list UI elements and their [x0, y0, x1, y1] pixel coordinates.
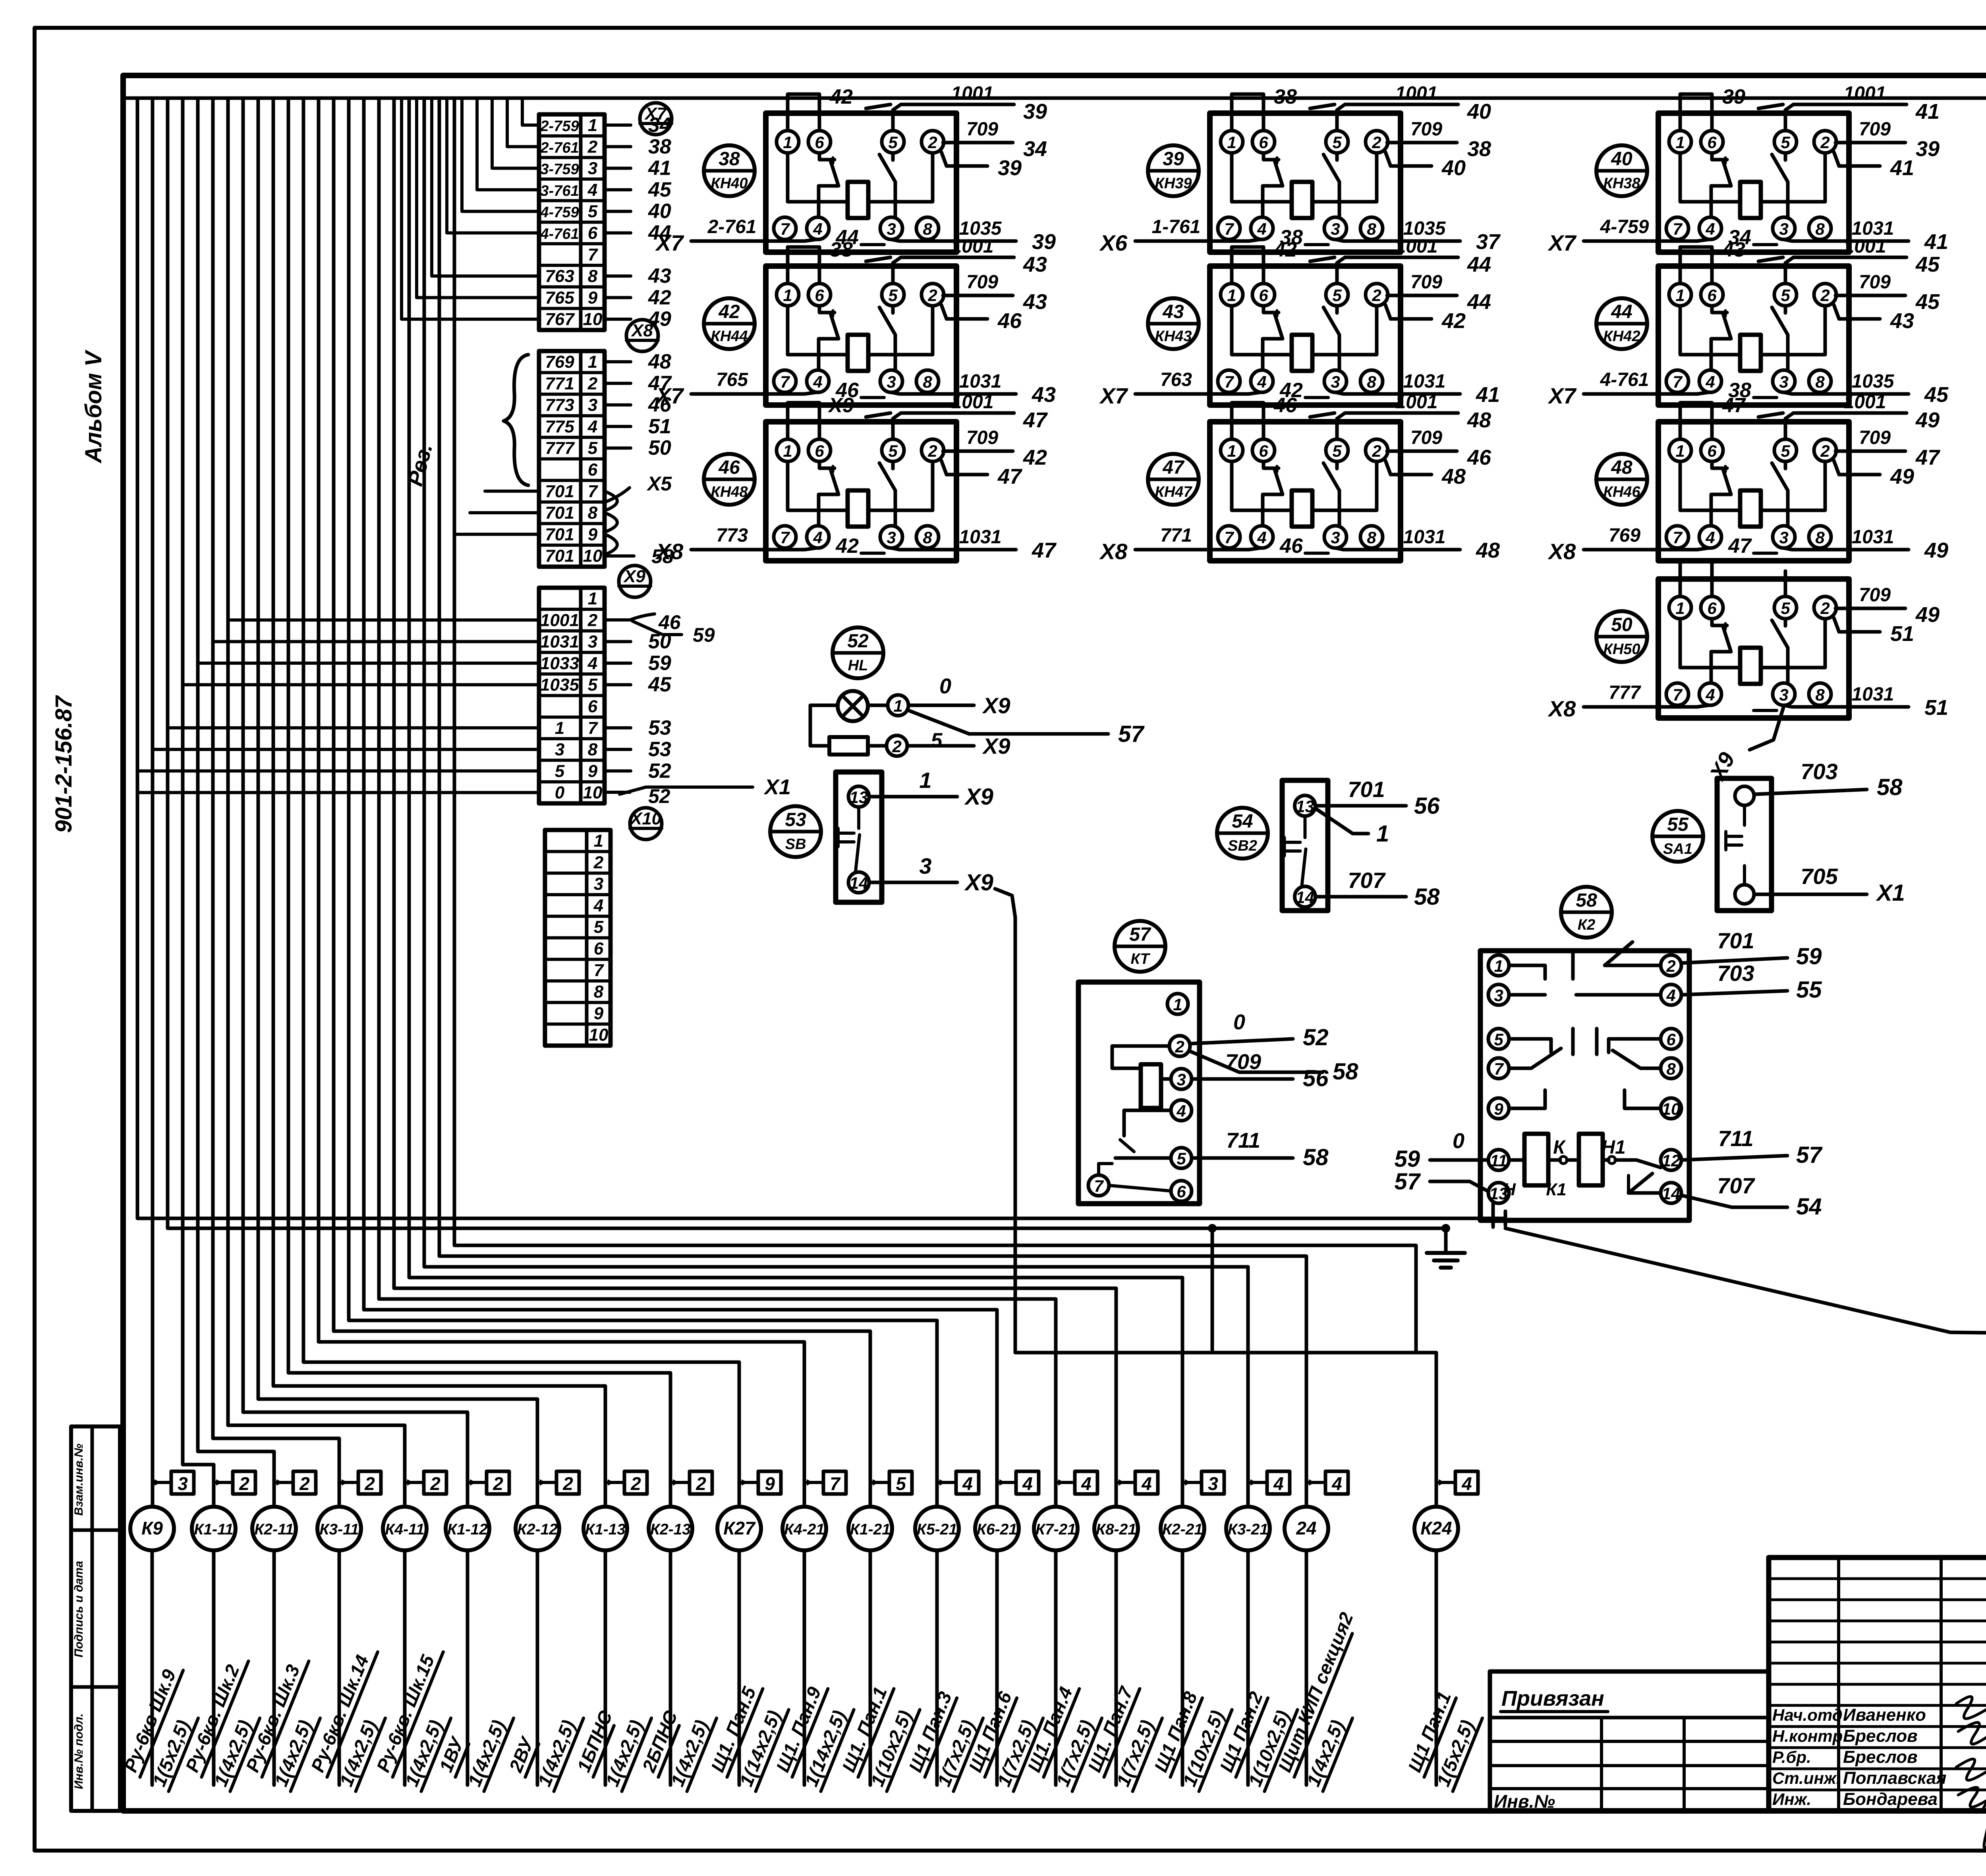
- svg-text:1031: 1031: [959, 527, 1002, 548]
- pin 1: [1221, 439, 1243, 461]
- svg-text:4: 4: [1257, 372, 1266, 391]
- svg-text:709: 709: [1410, 427, 1442, 448]
- svg-text:2-761: 2-761: [540, 139, 579, 156]
- svg-text:1: 1: [588, 589, 597, 608]
- cable down from К6-21: [995, 1550, 999, 1785]
- svg-text:38: 38: [1274, 85, 1297, 108]
- pin 3: [1773, 526, 1795, 548]
- svg-text:1: 1: [594, 831, 603, 851]
- cable count box 4: [1308, 1471, 1348, 1494]
- svg-text:37: 37: [1476, 230, 1501, 254]
- relay 38/КН40: [655, 83, 1056, 255]
- relay body КН38: [1658, 113, 1849, 252]
- wire 3: [869, 853, 993, 896]
- svg-text:47: 47: [1162, 457, 1185, 478]
- svg-text:8: 8: [923, 220, 932, 238]
- cabinet К1-12: [435, 1471, 514, 1791]
- svg-text:Взам.инв.№: Взам.инв.№: [72, 1444, 85, 1515]
- svg-text:52: 52: [847, 631, 869, 652]
- K2 coil K1: [1524, 1134, 1548, 1185]
- svg-text:58: 58: [1877, 774, 1903, 800]
- pin 4: [807, 526, 829, 548]
- svg-text:3: 3: [178, 1473, 188, 1494]
- wire 1001 from pin 5: [1785, 257, 1907, 283]
- svg-text:52: 52: [1303, 1025, 1329, 1050]
- svg-text:40: 40: [1467, 100, 1491, 124]
- svg-text:0: 0: [939, 674, 951, 698]
- svg-text:К1-21: К1-21: [850, 1521, 891, 1538]
- svg-text:707: 707: [1348, 868, 1386, 893]
- wire to cabinet К8-21: [394, 98, 1116, 1507]
- svg-text:КН43: КН43: [1155, 328, 1192, 345]
- jumper bracket pins 1-6: [1232, 94, 1263, 131]
- svg-text:7: 7: [1224, 528, 1234, 547]
- jumper bracket pins 1-6: [1680, 403, 1712, 439]
- cable name Щ1 Пан.3: [904, 1689, 957, 1777]
- second wire from pin 2: [1385, 152, 1432, 166]
- relay body КН39: [1210, 113, 1401, 252]
- cable down from К1-11: [212, 1550, 216, 1785]
- svg-text:43: 43: [1023, 253, 1047, 276]
- svg-text:769: 769: [545, 352, 574, 372]
- cable name Щ1 Пан.1: [1403, 1689, 1457, 1777]
- cable down from К1-13: [604, 1550, 607, 1785]
- svg-text:К8-21: К8-21: [1096, 1521, 1136, 1538]
- svg-text:46: 46: [1467, 446, 1491, 469]
- svg-text:46: 46: [718, 457, 740, 478]
- cable count box 2: [607, 1471, 647, 1494]
- left wire Х8 769: [1584, 548, 1708, 550]
- svg-text:8: 8: [1367, 372, 1376, 391]
- coil КН38: [1740, 182, 1761, 218]
- pin 8: [1809, 370, 1831, 392]
- cable count box 2: [672, 1471, 712, 1494]
- K2 pin 8: [1661, 1058, 1681, 1079]
- cabinet circle К24: [1414, 1507, 1458, 1550]
- wire 51 from Х8 pin 4: [605, 425, 631, 428]
- cabinet circle К2-13: [649, 1507, 692, 1550]
- svg-text:1001: 1001: [951, 392, 994, 413]
- contact 6-4: [819, 306, 835, 313]
- svg-text:46: 46: [1279, 535, 1303, 558]
- svg-text:10: 10: [1662, 1100, 1681, 1118]
- svg-text:Инв.№: Инв.№: [1494, 1791, 1555, 1812]
- KT pin 5: [1171, 1148, 1192, 1168]
- svg-text:773: 773: [716, 525, 748, 546]
- cable count box 5: [872, 1471, 912, 1494]
- cabinet circle К27: [717, 1507, 761, 1550]
- svg-text:2: 2: [630, 1473, 641, 1494]
- svg-text:1: 1: [1376, 821, 1389, 847]
- K2 body: [1480, 951, 1689, 1220]
- pin 6: [1701, 596, 1723, 619]
- switch body SA1: [1717, 778, 1772, 911]
- svg-text:Х1: Х1: [1876, 880, 1905, 906]
- KT pin 7: [1088, 1175, 1109, 1196]
- svg-text:8: 8: [1815, 220, 1825, 238]
- designator circle 43/КН43: [1148, 298, 1199, 349]
- svg-text:45: 45: [1915, 253, 1940, 276]
- svg-text:4: 4: [1331, 1473, 1342, 1494]
- wire to cabinet К1-11: [183, 98, 214, 1507]
- designator circle 39/КН39: [1148, 145, 1199, 196]
- svg-text:7: 7: [1673, 372, 1683, 391]
- jumper bracket pins 1-6: [788, 403, 819, 439]
- cabinet circle К8-21: [1094, 1507, 1138, 1550]
- connector symbol Х8: [626, 320, 658, 351]
- wire diagonal net 0 to frame right: [1505, 1228, 1986, 1339]
- svg-text:3: 3: [887, 528, 896, 547]
- svg-text:3: 3: [588, 396, 597, 415]
- wire 1001 from pin 5: [893, 413, 1014, 439]
- second wire from pin 2: [1385, 461, 1432, 475]
- relay body КН43: [1210, 266, 1401, 405]
- wire 0 to Х9 from lamp pin 1: [908, 674, 1010, 718]
- cable count box 2: [469, 1471, 509, 1494]
- pin 3: [1773, 683, 1795, 705]
- strip Х7 outline: [539, 114, 605, 330]
- KT pin 1: [1167, 994, 1188, 1014]
- terminal strip Х8: [539, 320, 672, 567]
- svg-text:709: 709: [966, 119, 998, 140]
- pin 6: [1701, 131, 1723, 153]
- contact 5-3: [1784, 461, 1787, 469]
- pin 4: [1699, 370, 1721, 392]
- svg-text:Х7: Х7: [644, 104, 667, 124]
- pin 3: [880, 526, 902, 548]
- wire 52 and X1 from Х9 pin 10: [605, 775, 791, 807]
- svg-text:2: 2: [1175, 1037, 1184, 1056]
- svg-text:709: 709: [1859, 585, 1891, 606]
- coil КН39: [1292, 182, 1312, 218]
- second wire from pin 2: [1834, 152, 1880, 166]
- jumper bracket pins 1-6: [1232, 247, 1263, 284]
- cable down from К8-21: [1115, 1550, 1118, 1785]
- svg-text:1: 1: [919, 768, 931, 793]
- svg-text:2: 2: [593, 853, 604, 872]
- relay 44/КН42: [1547, 236, 1949, 408]
- svg-text:50: 50: [648, 436, 671, 459]
- svg-text:1001: 1001: [1395, 236, 1438, 257]
- designator circle 42/КН44: [704, 298, 755, 349]
- junction at KT feeder and bus N: [1208, 1224, 1217, 1233]
- svg-text:7: 7: [1224, 372, 1234, 391]
- svg-text:1: 1: [1675, 133, 1685, 152]
- jumper loops Х8 pins 7-10: [605, 491, 617, 555]
- svg-text:10: 10: [583, 546, 603, 566]
- svg-text:1031: 1031: [1852, 527, 1894, 548]
- wire 41 from Х7 pin 3: [605, 167, 631, 170]
- cabinet circle К2-21: [1161, 1507, 1204, 1550]
- svg-text:58: 58: [1333, 1059, 1358, 1085]
- jumper bracket pins 1-6: [788, 247, 819, 284]
- wire to cabinet К7-21: [379, 98, 1056, 1507]
- relay body КН50: [1658, 579, 1849, 718]
- cabinet К5-21: [904, 1471, 983, 1791]
- KT pin 3: [1171, 1069, 1192, 1089]
- svg-text:7: 7: [588, 245, 599, 264]
- relay body КН48: [766, 422, 956, 561]
- wire 1001 from pin 5: [1785, 413, 1907, 439]
- actuator symbol: [1285, 816, 1306, 886]
- svg-text:39: 39: [1023, 100, 1047, 124]
- cable down from К3-11: [338, 1550, 341, 1785]
- svg-text:2: 2: [364, 1473, 375, 1494]
- wire 1001 from pin 5: [1785, 104, 1907, 130]
- svg-text:52: 52: [648, 759, 671, 782]
- jumper bracket pins 1-6: [788, 94, 819, 131]
- svg-text:Х9: Х9: [982, 693, 1010, 718]
- svg-text:1: 1: [1675, 286, 1685, 305]
- cable spec 1(10х2,5): [1244, 1701, 1298, 1791]
- svg-text:711: 711: [1226, 1129, 1260, 1152]
- cabinet circle К3-21: [1226, 1507, 1270, 1550]
- svg-text:47: 47: [1722, 394, 1746, 417]
- cabinet К1-13: [572, 1471, 651, 1791]
- relay 48/КН46: [1547, 392, 1948, 564]
- cabinet circle К1-21: [848, 1507, 892, 1550]
- relay body КН44: [766, 266, 956, 405]
- cabinet К6-21: [964, 1471, 1043, 1791]
- pin 5: [1774, 284, 1797, 306]
- svg-text:4-759: 4-759: [1600, 216, 1649, 237]
- actuator symbol: [838, 807, 860, 871]
- svg-text:4-761: 4-761: [1600, 369, 1649, 390]
- pin 1: [1669, 439, 1691, 461]
- K2 pin 2: [1661, 955, 1681, 976]
- wire to cabinet К3-21: [424, 98, 1248, 1507]
- pin 4: [807, 217, 829, 239]
- svg-text:Х7: Х7: [1547, 383, 1577, 408]
- svg-text:1: 1: [1675, 599, 1685, 618]
- svg-text:777: 777: [1609, 682, 1641, 703]
- svg-text:К1-11: К1-11: [194, 1521, 233, 1538]
- cable name Щ1. Пан.1: [837, 1680, 894, 1777]
- svg-text:3: 3: [1331, 528, 1340, 547]
- svg-text:59: 59: [1796, 944, 1822, 969]
- svg-text:Х9: Х9: [623, 567, 645, 586]
- svg-text:53: 53: [648, 716, 671, 739]
- wire pin2 to coil: [868, 153, 933, 202]
- pin 2: [1814, 131, 1836, 153]
- svg-text:38: 38: [648, 135, 671, 158]
- wire 1001 from pin 5: [1337, 413, 1458, 439]
- svg-text:49: 49: [1924, 538, 1948, 562]
- cable spec 1(4х2,5): [209, 1710, 260, 1791]
- svg-text:47: 47: [1023, 408, 1048, 432]
- svg-text:5: 5: [1494, 1030, 1503, 1049]
- svg-text:701: 701: [1717, 928, 1754, 953]
- cable name Ру-6кв Шк.9: [119, 1662, 183, 1777]
- svg-text:4: 4: [1141, 1473, 1152, 1494]
- svg-text:40: 40: [648, 200, 671, 223]
- cable count box 4: [1438, 1471, 1478, 1494]
- svg-text:К3-21: К3-21: [1228, 1521, 1268, 1538]
- svg-text:10: 10: [583, 783, 603, 803]
- svg-text:2: 2: [1666, 957, 1675, 975]
- wire 0 from 59 to K2 pin 11: [1394, 1129, 1488, 1172]
- svg-text:6: 6: [1259, 133, 1268, 152]
- wire 45 from Х9 pin 5: [605, 683, 631, 686]
- svg-text:К7-21: К7-21: [1036, 1521, 1076, 1538]
- wire 709 to 56 from KT pin 3: [1192, 1050, 1329, 1091]
- switch body SB2: [1282, 780, 1328, 911]
- svg-text:763: 763: [545, 266, 574, 286]
- svg-text:1031: 1031: [1852, 684, 1894, 705]
- svg-text:55: 55: [1667, 814, 1689, 835]
- svg-text:4: 4: [1257, 528, 1266, 547]
- coil КН50: [1740, 648, 1761, 684]
- wire 50 from Х8 pin 5: [605, 446, 631, 450]
- pin 1: [777, 284, 799, 306]
- wire 1001 from pin 5: [893, 257, 1014, 283]
- pin 8: [1809, 683, 1831, 705]
- svg-text:59: 59: [1394, 1146, 1420, 1172]
- svg-text:HL: HL: [848, 657, 868, 674]
- KT pin 2: [1169, 1036, 1190, 1056]
- svg-text:703: 703: [1717, 961, 1754, 986]
- svg-text:54: 54: [1796, 1194, 1822, 1220]
- net bus N (lower horizontal, grounded): [168, 98, 1446, 1228]
- svg-text:0: 0: [1233, 1010, 1245, 1034]
- pin 5: [1774, 439, 1797, 461]
- pin 8: [1360, 526, 1383, 548]
- selector switch 55/SA1: [1652, 759, 1905, 911]
- strip Х10 outline: [545, 830, 610, 1046]
- designator circle 47/КН47: [1148, 454, 1199, 505]
- svg-text:4: 4: [1705, 685, 1715, 704]
- svg-text:КН50: КН50: [1603, 641, 1640, 658]
- svg-text:3-761: 3-761: [540, 183, 579, 199]
- svg-text:709: 709: [1225, 1050, 1261, 1074]
- svg-text:41: 41: [1915, 100, 1940, 124]
- indicator lamp 52/HL: [810, 627, 1145, 759]
- wire 703 to 58: [1755, 759, 1903, 800]
- pin 7: [774, 217, 796, 239]
- svg-text:1: 1: [783, 442, 792, 460]
- designator circle 46/КН48: [704, 454, 755, 505]
- designator circle 55/SA1: [1652, 811, 1703, 862]
- svg-text:2: 2: [493, 1473, 503, 1494]
- svg-text:5: 5: [555, 761, 565, 781]
- cable name Щ1 Пан.2: [1215, 1689, 1268, 1777]
- contact 5-3: [891, 153, 895, 160]
- svg-text:3: 3: [1331, 372, 1340, 391]
- SA1 top contact: [1735, 786, 1754, 805]
- cable down from К2-12: [536, 1550, 539, 1785]
- wire to cabinet К9: [151, 98, 155, 1507]
- cabinet К27: [706, 1471, 789, 1791]
- wire 1035 from pin 3: [1754, 396, 1777, 399]
- wire 47 from Х8 pin 2: [605, 382, 631, 385]
- pin 8: [1360, 217, 1383, 239]
- cable spec 1(4х2,5): [601, 1710, 651, 1791]
- svg-text:24: 24: [1296, 1518, 1316, 1538]
- wire 52 from Х9 pin 9: [605, 769, 631, 772]
- pin 7: [1666, 370, 1688, 392]
- svg-text:14: 14: [850, 874, 868, 892]
- wire from SB pin 14 down to К24 feeder: [995, 889, 1015, 1353]
- svg-text:1: 1: [1227, 133, 1236, 152]
- relay 58/К2: [1394, 887, 1823, 1227]
- wire to cabinet К1-13: [273, 98, 605, 1507]
- K2 coil H1: [1579, 1134, 1603, 1185]
- contact 5-3: [1784, 619, 1787, 626]
- cable down from К1-21: [869, 1550, 872, 1785]
- wire 701 to 59 from K2 pin 2: [1681, 928, 1822, 969]
- wire pin2 to coil: [1761, 461, 1825, 510]
- relay 50/КН50: [1547, 560, 1948, 785]
- pin 4: [1251, 370, 1273, 392]
- svg-text:701: 701: [545, 482, 574, 501]
- K2 contact 5-6 7-8: [1509, 1029, 1661, 1068]
- relay body КН46: [1658, 422, 1849, 561]
- svg-text:6: 6: [1707, 442, 1717, 460]
- pin 8: [916, 526, 939, 548]
- coil КН43: [1292, 335, 1312, 371]
- svg-text:Х9: Х9: [827, 394, 854, 417]
- svg-text:769: 769: [1609, 525, 1640, 546]
- pin 5: [1326, 439, 1348, 461]
- svg-text:8: 8: [1815, 372, 1825, 391]
- wire 709 from pin 2: [943, 450, 1013, 453]
- cabinet circle К2-12: [516, 1507, 559, 1550]
- cable spec 1(4х2,5): [400, 1710, 451, 1791]
- svg-text:Альбом V: Альбом V: [81, 349, 106, 464]
- svg-text:4: 4: [1461, 1473, 1472, 1494]
- wire to cabinet К2-21: [409, 98, 1182, 1507]
- svg-text:701: 701: [545, 503, 574, 523]
- svg-text:5: 5: [1332, 442, 1342, 460]
- svg-text:4: 4: [813, 220, 822, 238]
- svg-text:7: 7: [830, 1473, 841, 1494]
- svg-text:765: 765: [545, 288, 574, 307]
- svg-text:12: 12: [1662, 1151, 1681, 1170]
- svg-text:5: 5: [1781, 599, 1790, 618]
- svg-text:Х8: Х8: [1099, 539, 1128, 564]
- svg-text:3: 3: [1331, 220, 1340, 238]
- designator circle 58/К2: [1561, 887, 1612, 938]
- pin 3: [1773, 370, 1795, 392]
- svg-text:765: 765: [716, 369, 748, 390]
- contact 6-4: [1263, 462, 1279, 468]
- svg-text:Х9: Х9: [964, 870, 993, 896]
- pushbutton 53/SB: [770, 768, 993, 902]
- coil КН48: [848, 490, 868, 527]
- second wire from pin 2: [1385, 305, 1432, 319]
- K2 coil labels: [1503, 1137, 1626, 1199]
- svg-text:54: 54: [1232, 811, 1253, 832]
- svg-text:11: 11: [1490, 1151, 1507, 1170]
- cable spec 1(4х2,5): [1302, 1710, 1352, 1791]
- svg-text:Н.контр: Н.контр: [1772, 1727, 1843, 1745]
- wire pin2 to coil: [1312, 306, 1377, 355]
- pin 6: [1252, 439, 1275, 461]
- svg-text:43: 43: [1023, 290, 1047, 314]
- svg-text:Иваненко: Иваненко: [1843, 1705, 1926, 1725]
- svg-text:55: 55: [1796, 977, 1822, 1003]
- svg-text:3: 3: [588, 632, 597, 652]
- svg-text:41: 41: [1924, 230, 1948, 254]
- svg-text:1001: 1001: [1395, 392, 1438, 413]
- svg-text:1001: 1001: [951, 236, 994, 257]
- svg-text:1: 1: [588, 116, 597, 135]
- wires 46 and 59 from Х9 pin 2: [605, 611, 715, 646]
- wire pin1 to coil: [1232, 306, 1292, 355]
- pin 8: [1809, 526, 1831, 548]
- svg-text:13: 13: [1296, 797, 1314, 816]
- svg-text:6: 6: [1259, 286, 1268, 305]
